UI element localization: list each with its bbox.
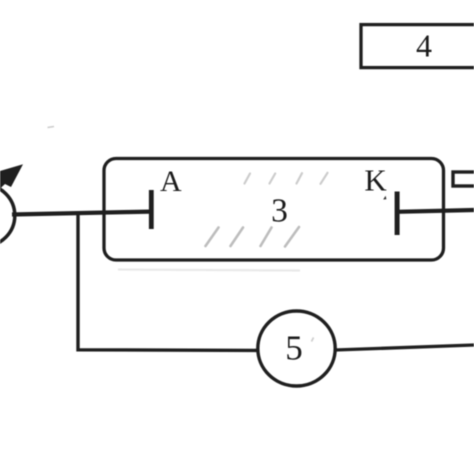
svg-text:K: K (364, 163, 387, 198)
cathode bar K (395, 192, 400, 236)
faint scan smear under tube (118, 270, 300, 271)
ammeter circle 5 (258, 311, 335, 386)
svg-text:3: 3 (271, 193, 288, 230)
tube 3 (glass tube, rounded rectangle) (104, 159, 444, 261)
wire: cathode lead to right edge (397, 210, 474, 212)
wire: vertical drop from junction (78, 213, 258, 351)
faint scan artifact dash top-left (48, 127, 55, 128)
resistor (cut off at right edge) (453, 172, 474, 186)
speck near K (383, 196, 386, 200)
faint speck inside circle 5 (312, 338, 314, 342)
glass shading hatch marks upper row (245, 173, 328, 184)
anode bar A (149, 190, 154, 229)
svg-text:A: A (160, 165, 182, 198)
wire: main lead from meter to anode (12, 212, 150, 215)
arrowhead (0, 164, 23, 187)
glass shading hatch marks lower row (206, 227, 300, 247)
svg-text:4: 4 (416, 28, 432, 64)
arrow shaft through meter (0, 181, 5, 198)
meter/source circle (cut off at left edge) (0, 185, 15, 247)
wire: from ammeter to right edge (335, 345, 474, 350)
box 4 (power supply block, cut off at right edge) (361, 25, 474, 68)
svg-text:5: 5 (285, 329, 303, 368)
